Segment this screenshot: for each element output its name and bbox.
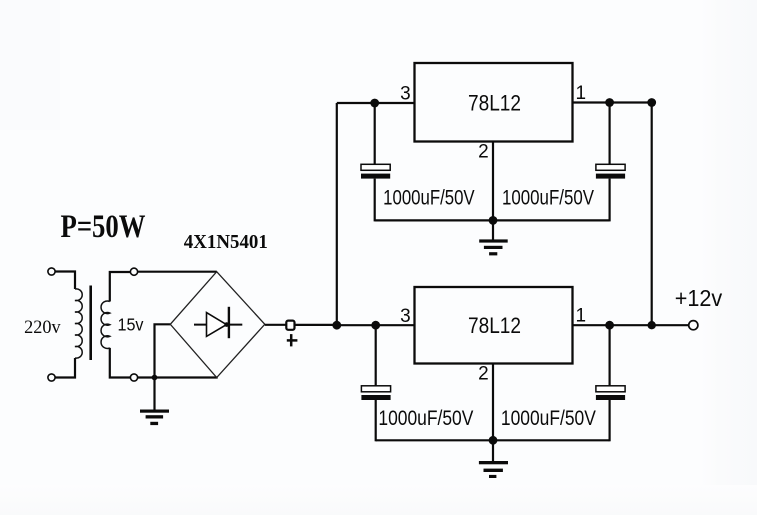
node junction U1 pin1 [605, 98, 614, 107]
svg-text:2: 2 [478, 142, 489, 163]
wire top ground rail [375, 219, 610, 221]
svg-text:1: 1 [576, 83, 587, 104]
wire primary top [55, 272, 75, 290]
node junction input riser [332, 321, 341, 330]
transformer T1 primary terminal top [48, 268, 55, 275]
ground GND3 [479, 440, 508, 478]
node junction output riser bottom [648, 321, 656, 329]
wire + terminal to input rail [296, 324, 338, 326]
wire top input rail [337, 102, 415, 104]
node junction top output corner [647, 98, 656, 107]
transformer T1 secondary terminal top [130, 268, 137, 275]
wire input riser to top regulator [336, 103, 338, 325]
transformer T1 core [89, 286, 92, 361]
svg-text:78L12: 78L12 [468, 313, 521, 338]
svg-text:1000uF/50V: 1000uF/50V [378, 406, 474, 430]
transformer T1 primary winding [75, 289, 82, 358]
capacitor C1 plates [361, 164, 390, 178]
ground GND2 [479, 220, 508, 255]
regulator U1 78L12 box [415, 63, 573, 142]
wire U1 pin2 [492, 142, 494, 221]
bridge rectifier 4X1N5401 diamond [170, 272, 264, 378]
svg-text:1: 1 [576, 306, 587, 327]
capacitor C1 bottom wire [374, 179, 376, 222]
capacitor C2 plates [596, 164, 625, 178]
svg-text:1000uF/50V: 1000uF/50V [383, 186, 475, 210]
wire U2 pin2 [492, 364, 494, 441]
capacitor C4 bottom wire [608, 400, 610, 441]
capacitor C3 top wire [375, 325, 377, 386]
svg-text:4X1N5401: 4X1N5401 [184, 231, 268, 253]
node junction C3 top [371, 321, 380, 330]
svg-text:3: 3 [400, 306, 411, 327]
transformer T1 secondary terminal bottom [130, 374, 137, 381]
node junction top ground [489, 216, 498, 225]
node + output terminal [286, 321, 294, 330]
capacitor C4 plates [596, 386, 625, 400]
svg-text:1000uF/50V: 1000uF/50V [501, 406, 597, 430]
node junction U2 pin1 [605, 321, 614, 330]
svg-text:15v: 15v [118, 314, 144, 334]
capacitor C4 top wire [608, 325, 610, 386]
diode D1 inside bridge [194, 307, 242, 338]
wire secondary bottom to bridge [138, 376, 218, 378]
svg-text:3: 3 [400, 83, 411, 104]
svg-text:+12v: +12v [675, 285, 723, 311]
wire secondary top riser [110, 272, 130, 302]
wire secondary top to bridge [138, 271, 217, 273]
wire bridge left vertex drop [155, 324, 171, 377]
ground GND1 [140, 378, 169, 426]
capacitor C3 plates [361, 386, 390, 400]
wire bottom ground rail [376, 439, 610, 441]
svg-text:220v: 220v [24, 318, 61, 338]
svg-text:P=50W: P=50W [61, 209, 146, 245]
regulator U2 78L12 box [415, 287, 573, 364]
capacitor C2 bottom wire [608, 179, 610, 222]
wire U2 pin1 rail [573, 324, 689, 326]
svg-text:1000uF/50V: 1000uF/50V [502, 186, 595, 210]
node junction top input [370, 99, 379, 108]
svg-text:78L12: 78L12 [468, 91, 521, 116]
capacitor C2 top wire [608, 103, 610, 165]
label + polarity [287, 334, 298, 346]
wire primary bottom [55, 358, 75, 378]
capacitor C3 bottom wire [375, 400, 377, 441]
svg-text:2: 2 [478, 364, 489, 385]
wire bridge output [265, 324, 287, 326]
transformer T1 primary terminal bottom [48, 374, 55, 381]
node junction bottom ground [489, 436, 498, 445]
transformer T1 secondary winding [101, 301, 110, 348]
wire U1 pin1 rail [573, 101, 652, 103]
wire secondary bottom riser [110, 348, 130, 378]
wire bottom input rail [337, 324, 415, 326]
capacitor C1 top wire [374, 103, 376, 164]
wire output riser [651, 103, 653, 326]
node output terminal +12v [689, 321, 698, 330]
node junction bottom-left [152, 375, 158, 381]
